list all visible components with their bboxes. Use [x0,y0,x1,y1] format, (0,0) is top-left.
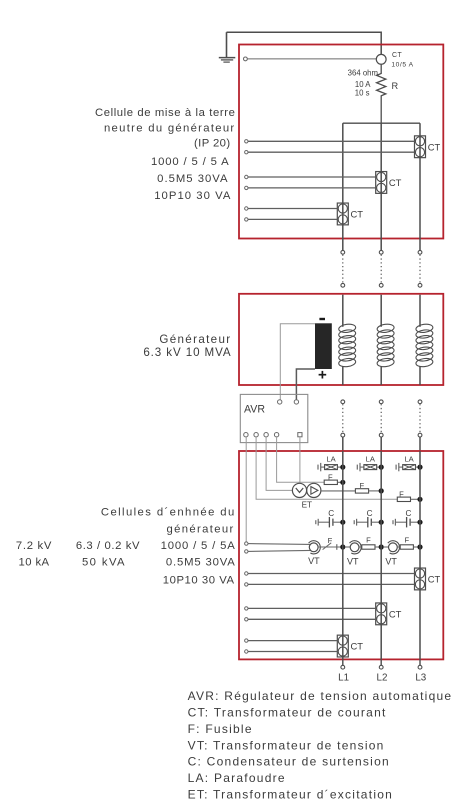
generator winding L3 [415,295,433,385]
svg-text:L2: L2 [377,673,388,684]
resistor R (364 ohm) [348,64,399,123]
svg-text:C: C [405,509,411,518]
svg-text:CT: CT [389,177,402,188]
wires + terminals CT L2 (bottom) [245,607,376,621]
disconnect link L1 (lower gap) [341,400,345,451]
svg-text:F: F [366,536,371,545]
svg-text:CT: CT [428,141,441,152]
wires + terminals CT L3 (bottom) [245,572,415,586]
generator winding L1 [338,295,356,385]
CT neutral (10/5 A) [376,52,413,68]
CT phase L2 (bottom box) [376,603,402,625]
wire AVR t2 to fuse F3 [256,437,397,499]
capacitor C phase L3 [393,509,422,528]
svg-text:364 ohm: 364 ohm [348,69,378,78]
disconnect link L3 (top gap) [418,250,422,287]
wire neutral from ground to CT [227,32,382,54]
svg-text:CT: CT [392,52,402,59]
svg-text:VT: VT [385,556,397,566]
CT phase L1 (top box) [337,203,363,225]
svg-text:1000 / 5 / 5 A: 1000 / 5 / 5 A [151,156,229,168]
svg-text:C: C [328,509,334,518]
wires + terminals CT L3 (top box) [245,140,415,154]
AVR top terminals [278,400,299,404]
wire phase L2 bottom box [380,451,382,659]
wire field plus to AVR [296,369,315,400]
box generateur [239,294,443,385]
disconnect link L2 (lower gap) [379,400,383,451]
CT phase L2 (top box) [376,172,402,194]
svg-text:LA: LA [366,455,376,464]
svg-text:LA: LA [326,455,336,464]
svg-text:L1: L1 [338,673,349,684]
svg-text:F: F [399,489,404,498]
svg-text:C: Condensateur de surtension: C: Condensateur de surtension [188,755,390,769]
CT phase L1 (bottom box) [337,635,363,657]
wires + terminals CT L1 (bottom) [245,639,338,653]
text cellules d entree [16,507,236,587]
voltage transformer VT1 [308,536,345,566]
wires + terminals CT L1 (top box) [245,207,338,221]
terminal L2 [377,659,388,683]
disconnect link L2 (top gap) [379,250,383,287]
ground [219,32,236,62]
svg-text:F: F [359,481,364,490]
svg-text:F: F [328,472,333,481]
CT phase L3 (top box) [415,136,441,158]
fuse F2 (phase L2) [355,481,383,493]
surge arrester LA phase L2 [357,455,383,472]
wire AVR t3 to ET [266,437,292,490]
generator winding L2 [377,295,395,385]
svg-text:10P10 30 VA: 10P10 30 VA [154,190,231,202]
terminal L1 [338,659,349,683]
svg-text:ET: ET [302,500,312,509]
text cellule de mise a la terre [95,107,236,202]
svg-text:CT: Transformateur de courant: CT: Transformateur de courant [188,706,387,720]
svg-text:ET: Transformateur d´excitatio: ET: Transformateur d´excitation [188,787,393,800]
svg-text:F: F [328,536,333,545]
disconnect link L3 (lower gap) [418,400,422,451]
svg-text:Générateur: Générateur [159,333,231,346]
svg-text:0.5M5 30VA: 0.5M5 30VA [166,557,236,569]
svg-text:AVR: AVR [244,404,265,416]
wire phase L3 top box [419,123,421,250]
AVR bottom terminals [244,433,302,437]
svg-text:CT: CT [351,208,364,219]
svg-text:10/5 A: 10/5 A [391,61,413,68]
svg-text:6.3 / 0.2 kV: 6.3 / 0.2 kV [76,540,140,552]
svg-text:R: R [392,81,399,91]
wire neutral secondary [247,58,376,60]
svg-text:1000 / 5 / 5A: 1000 / 5 / 5A [161,540,236,552]
field winding (excitation) bar [315,318,332,379]
svg-text:VT: VT [308,556,320,566]
svg-text:C: C [367,509,373,518]
wires + terminals CT L2 (top box) [245,175,376,189]
svg-text:F: F [404,536,409,545]
fuse F1 (phase L1) [324,472,345,484]
wire AVR t1 to VT terminal [245,437,247,542]
disconnect link L1 (top gap) [341,250,345,287]
svg-text:AVR: Régulateur de tension aut: AVR: Régulateur de tension automatique [188,689,453,703]
AVR box [240,394,307,442]
voltage transformer VT2 [345,536,384,567]
svg-text:VT: VT [347,556,359,566]
wire neutral point tee [343,122,420,124]
capacitor C phase L2 [354,509,383,528]
surge arrester LA phase L1 [318,455,345,472]
svg-text:50 kVA: 50 kVA [82,557,126,569]
svg-text:L3: L3 [415,673,426,684]
box cellule de mise a la terre [239,45,443,239]
svg-text:(IP 20): (IP 20) [194,138,231,150]
legend text [188,689,453,800]
fuse F3 (phase L3) [397,489,422,501]
wire AVR t5 to ET top [299,437,301,484]
terminal L3 [415,659,426,683]
text generateur [143,333,231,359]
capacitor C phase L1 [316,509,345,528]
svg-text:neutre du générateur: neutre du générateur [104,123,236,135]
svg-text:0.5M5 30VA: 0.5M5 30VA [157,173,228,185]
svg-text:10P10 30 VA: 10P10 30 VA [163,575,235,587]
svg-text:6.3 kV 10 MVA: 6.3 kV 10 MVA [143,346,231,359]
svg-text:F: Fusible: F: Fusible [188,722,253,736]
svg-text:CT: CT [351,641,364,652]
svg-text:Cellule de mise à la terre: Cellule de mise à la terre [95,107,236,119]
wire ET to fuse F2 [321,490,356,492]
transformer ET (excitation) [292,483,321,509]
wire phase L1 top box [342,123,344,250]
wire AVR t4 to fuse F1 [277,437,325,482]
voltage transformer VT3 [383,536,422,567]
svg-text:10 s: 10 s [355,89,370,98]
wire phase L2 top box [380,123,382,250]
wire phase L1 bottom box [342,451,344,659]
svg-text:7.2 kV: 7.2 kV [16,540,52,552]
svg-text:10 kA: 10 kA [19,557,50,569]
wire field minus to AVR [280,324,315,400]
svg-text:Cellules d´enhnée du: Cellules d´enhnée du [101,507,236,519]
svg-text:CT: CT [428,573,441,584]
svg-text:VT: Transformateur de tension: VT: Transformateur de tension [188,738,385,752]
box cellules d entree du generateur [239,451,443,659]
CT phase L3 (bottom box) [415,568,441,590]
svg-text:LA: Parafoudre: LA: Parafoudre [188,771,286,785]
wire phase L3 bottom box [419,451,421,659]
svg-text:LA: LA [404,455,414,464]
surge arrester LA phase L3 [396,455,422,472]
svg-text:CT: CT [389,608,402,619]
svg-text:générateur: générateur [166,524,234,536]
terminal neutral secondary [244,57,248,61]
VT terminals + wires (left) [245,542,311,553]
